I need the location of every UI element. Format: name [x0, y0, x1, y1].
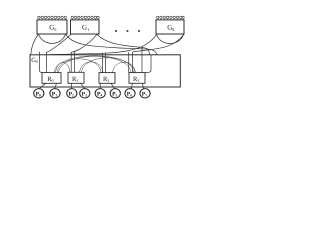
processor P3: [80, 89, 90, 98]
net drop to R0 pin a: [40, 52, 43, 73]
bus arc R0-R3: [59, 56, 132, 72]
net drop to R3 pin c: [141, 47, 143, 73]
net drop to R2 pin b: [105, 53, 107, 73]
memory module G8 box: [156, 20, 184, 34]
bus arc R0-R1: [56, 62, 71, 72]
memory module G8 bank comb: [157, 16, 185, 20]
wire R3 to P7: [142, 83, 143, 89]
processor P2: [67, 89, 77, 98]
wire G1 bottom-right down-left to R1: [71, 34, 97, 52]
processor P7: [140, 89, 150, 98]
wire G0 bottom-right long sweep right: [66, 34, 157, 54]
processor P5: [110, 89, 120, 98]
bus arc R0-R2: [57, 59, 101, 73]
wire R1 to P3: [81, 83, 85, 88]
wire G0 bottom-left to cluster corner: [31, 34, 39, 55]
bus arc R0-R3 second: [54, 56, 135, 73]
wire R2 to P4: [99, 83, 101, 88]
wire arc under G8: [157, 35, 184, 44]
wire arc under G0: [39, 34, 66, 43]
processor P0: [34, 89, 44, 98]
processor P6: [125, 89, 135, 98]
router R1 box: [68, 72, 84, 83]
memory module G0 box: [37, 20, 67, 34]
wire G8 bottom-left long sweep left: [50, 35, 157, 55]
net drop to R1 pin a: [70, 52, 72, 72]
ellipsis dots: [115, 30, 140, 32]
cluster box G0 (expanded): [30, 55, 180, 87]
wire R3 to P6: [131, 83, 133, 89]
processor P1: [50, 89, 60, 98]
bus arc R2-R3: [113, 62, 136, 72]
net drop to R1 pin b: [73, 51, 75, 72]
wire G1 bottom-right long sweep right: [97, 34, 150, 54]
wire G1 bottom-left crossing to R0: [47, 34, 71, 52]
net drop to R2 pin a: [101, 53, 103, 73]
memory module G1 bank comb: [71, 16, 99, 20]
processor P4: [95, 89, 105, 98]
net drop to R3 pin b: [132, 52, 134, 72]
wire R0 to P1: [55, 83, 57, 88]
router R0 box: [42, 73, 61, 84]
net drop to R3 right-side pin: [145, 55, 151, 73]
bus arc R1-R3: [82, 58, 134, 73]
wire R0 to P0: [39, 83, 45, 89]
bus arc R1-R2: [80, 62, 104, 73]
net drop to R3 pin a: [128, 52, 130, 72]
memory module G0 bank comb: [38, 16, 67, 20]
svg-text:G0: G0: [31, 57, 38, 64]
router R3 box: [129, 73, 145, 84]
router R2 box: [99, 73, 115, 84]
memory module G1 box: [71, 20, 100, 34]
wire R1 to P2: [71, 83, 73, 88]
wire R2 to P5: [111, 83, 115, 88]
net drop to R0 pin b: [45, 52, 47, 72]
wire G8 bottom-right sweep left to R3: [133, 35, 184, 53]
